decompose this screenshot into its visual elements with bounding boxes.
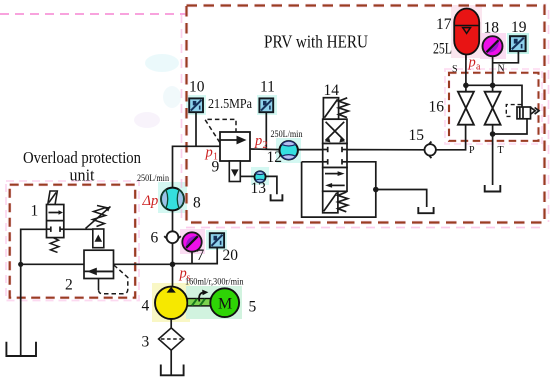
valve 14: proportional directional valve xyxy=(323,98,349,213)
valve 2 dashed pilot line xyxy=(99,265,128,294)
valve 1 solenoid xyxy=(48,191,58,204)
svg-text:19: 19 xyxy=(511,19,527,36)
svg-text:15: 15 xyxy=(409,127,425,144)
title: Overload protection unit xyxy=(23,148,141,185)
node: S junction xyxy=(463,83,469,89)
tank: HERU T port xyxy=(485,185,501,192)
svg-text:14: 14 xyxy=(324,82,340,99)
relief valve in block 16 xyxy=(517,107,539,119)
svg-text:250L/min: 250L/min xyxy=(271,130,303,140)
valve 2 drain stub xyxy=(98,279,100,291)
svg-text:p: p xyxy=(468,55,476,71)
svg-text:20: 20 xyxy=(223,247,239,264)
sensor 19 xyxy=(510,36,526,51)
flow meter 12 xyxy=(280,141,298,159)
svg-text:a: a xyxy=(476,62,481,73)
wire: shutoff S line to accumulator xyxy=(465,55,467,92)
tank: suction below filter 3 xyxy=(161,365,184,376)
label 13 xyxy=(251,180,267,197)
wire: filter 3 to tank xyxy=(170,350,172,375)
svg-text:M: M xyxy=(218,296,232,313)
wire: gauge 7 drop xyxy=(191,252,193,264)
wire: header S to relief drop xyxy=(466,85,522,107)
pump 4 xyxy=(155,287,187,319)
position box: parallel arrows xyxy=(323,168,347,192)
top spring xyxy=(339,98,349,118)
tank: valve 9 drain xyxy=(271,194,283,200)
wire: sensor 11 drop xyxy=(265,112,267,149)
svg-text:N: N xyxy=(498,64,505,75)
valve 1 return spring xyxy=(50,238,59,253)
svg-text:7: 7 xyxy=(197,247,205,264)
label 9 xyxy=(212,159,220,176)
svg-text:11: 11 xyxy=(260,79,275,96)
label 25L xyxy=(433,40,452,57)
wire: T junction to relief valve 16 xyxy=(493,119,527,134)
label S port xyxy=(452,64,458,75)
valve 9 dashed pilot xyxy=(205,119,236,142)
position box: center closed xyxy=(323,144,347,168)
svg-text:Overload protection: Overload protection xyxy=(23,148,141,167)
svg-text:4: 4 xyxy=(142,298,150,315)
svg-text:Δp: Δp xyxy=(142,193,159,209)
label 5 xyxy=(249,299,257,316)
label 12 xyxy=(267,149,283,166)
sensor 11 xyxy=(259,98,273,112)
label 4 xyxy=(142,298,150,315)
drive shaft xyxy=(187,299,211,306)
label 250L/min (valve line) xyxy=(271,130,303,140)
svg-text:250L/min: 250L/min xyxy=(137,174,169,184)
svg-text:6: 6 xyxy=(151,230,159,247)
bottom proportional solenoid xyxy=(323,191,338,213)
svg-text:T: T xyxy=(498,145,504,156)
label 17 xyxy=(436,16,452,33)
wire: branch to gauge 7 and sensor 20 xyxy=(173,247,218,263)
pink ghost left of PRV box xyxy=(182,10,549,228)
svg-text:12: 12 xyxy=(267,149,283,166)
label 19 xyxy=(511,19,527,36)
svg-text:p: p xyxy=(254,133,262,149)
svg-text:13: 13 xyxy=(251,180,267,197)
label delta-p xyxy=(142,193,159,209)
label 10 xyxy=(189,79,205,96)
wire: orifice 13 to tank xyxy=(265,176,277,194)
label 160ml/r,300r/min xyxy=(185,276,244,286)
svg-text:5: 5 xyxy=(249,299,257,316)
label 6 xyxy=(151,230,159,247)
valve 9 drain box with down arrow xyxy=(229,161,240,182)
sensor 20 xyxy=(210,233,224,247)
label 1 xyxy=(31,203,39,220)
valve 9: pilot-operated relief main stage xyxy=(220,132,250,161)
relief pilot spring 31.5MPa xyxy=(86,206,111,229)
node: N junction xyxy=(490,83,496,89)
svg-text:2: 2 xyxy=(65,277,73,294)
SECTION: halos behind colored components xyxy=(152,5,529,322)
wire: sensor 10 drop xyxy=(195,112,197,146)
wire: N line gauge 18 drop xyxy=(492,56,494,91)
position box: crossed arrows xyxy=(323,119,347,143)
label 250L/min (pump line) xyxy=(137,174,169,184)
node: junction on left rail xyxy=(18,262,23,267)
wire: accumulator stem xyxy=(465,54,467,60)
label p1 xyxy=(205,145,219,163)
wire: pump to filter 3 xyxy=(170,319,172,328)
label 21.5MPa xyxy=(208,96,252,111)
accumulator 17 xyxy=(454,9,479,55)
wire: flow meter 12 to valve 14 P port xyxy=(298,149,323,151)
check valve 15 xyxy=(424,142,436,159)
svg-text:S: S xyxy=(452,64,458,75)
gauge 7 xyxy=(182,232,201,251)
label ps xyxy=(179,266,191,284)
node: ps junction xyxy=(170,262,176,268)
svg-text:21.5MPa: 21.5MPa xyxy=(208,96,252,111)
label 15 xyxy=(409,127,425,144)
svg-text:8: 8 xyxy=(193,195,201,212)
pink ghost dashed line across top-left xyxy=(0,13,186,15)
pink ghost around HERU block 16 xyxy=(445,69,542,144)
label 7 xyxy=(197,247,205,264)
svg-text:PRV with HERU: PRV with HERU xyxy=(264,32,368,52)
sensor 10 xyxy=(189,98,203,112)
wire: check valve 6 to flow meter 8 xyxy=(172,211,174,232)
svg-text:3: 3 xyxy=(142,334,150,351)
dashed boundary: HERU block 16 xyxy=(449,73,539,141)
rotation arrow xyxy=(199,290,208,302)
svg-text:1: 1 xyxy=(31,203,39,220)
dashed boundary: Overload protection unit box xyxy=(10,185,136,298)
pilot poppet box with up arrow xyxy=(93,229,104,248)
label 20 xyxy=(223,247,239,264)
orifice 13 xyxy=(254,171,265,182)
node: loop junction dot xyxy=(373,187,379,193)
label p2 xyxy=(254,133,268,151)
faint compression-artifact smudges upper-left of PRV box xyxy=(134,54,181,128)
label 2 xyxy=(65,277,73,294)
label pa xyxy=(468,55,482,73)
label 11 xyxy=(260,79,275,96)
wire: valve 2 left port to left rail xyxy=(21,263,84,265)
svg-text:17: 17 xyxy=(436,16,452,33)
motor 5 xyxy=(210,288,239,317)
label T port xyxy=(498,145,504,156)
wire: loop junction to tank xyxy=(376,190,427,208)
wire: right shutoff to T tank xyxy=(492,125,494,185)
wire: valve 14 A port to check valve 15 xyxy=(347,149,425,151)
label 14 xyxy=(324,82,340,99)
wire: valve 2 right port to pump node xyxy=(114,263,173,265)
wire: valve 14 lower left port to loop xyxy=(302,161,323,163)
filter 3 xyxy=(159,328,184,350)
svg-text:10: 10 xyxy=(189,79,205,96)
gauge 18 xyxy=(483,36,503,56)
svg-text:unit: unit xyxy=(70,166,95,185)
pink ghost around overload box xyxy=(6,181,139,301)
check valve 6 xyxy=(164,231,181,243)
wire: sensor 19 drop to N line xyxy=(493,51,519,63)
wire: feedback loop rectangle xyxy=(302,162,376,217)
wire: valve 9 outlet to flow meter 12 xyxy=(250,148,280,151)
label 16 xyxy=(429,99,445,116)
wire: valve 9 drain to orifice 13 xyxy=(240,175,255,177)
svg-text:9: 9 xyxy=(212,159,220,176)
svg-text:16: 16 xyxy=(429,99,445,116)
title: PRV with HERU xyxy=(264,32,368,52)
label 8 xyxy=(193,195,201,212)
top proportional solenoid xyxy=(323,98,338,120)
valve 2: cartridge main stage xyxy=(84,250,114,278)
valve 1: 2/2 solenoid valve body xyxy=(47,205,64,238)
tank: valve 14 drain xyxy=(418,207,433,213)
svg-text:18: 18 xyxy=(484,20,500,37)
label 18 xyxy=(484,20,500,37)
label 3 xyxy=(142,334,150,351)
shutoff valve left (16) xyxy=(458,92,474,125)
flow meter 8 xyxy=(161,188,184,211)
node: T junction xyxy=(490,131,496,137)
label P port xyxy=(469,145,475,156)
tank: overload unit return xyxy=(6,342,36,356)
svg-text:160ml/r,300r/min: 160ml/r,300r/min xyxy=(185,276,244,286)
svg-text:25L: 25L xyxy=(433,40,452,57)
bottom spring xyxy=(338,192,348,212)
dashed boundary: PRV with HERU box xyxy=(187,6,545,223)
relief valve 16 dashed pilot xyxy=(506,105,521,117)
wire: check valve 15 to P port riser xyxy=(436,125,466,150)
shutoff valve right (16) xyxy=(485,92,501,125)
wire: flow meter 8 up and right to valve 9 xyxy=(173,146,221,187)
label N node xyxy=(498,64,505,75)
wire: left rail top horizontal to valve 1 left port xyxy=(21,229,47,356)
svg-text:P: P xyxy=(469,145,475,156)
wire: main riser pump to check valve 6 xyxy=(172,243,174,286)
wire: valve 1 right port to pilot poppet xyxy=(64,228,93,230)
